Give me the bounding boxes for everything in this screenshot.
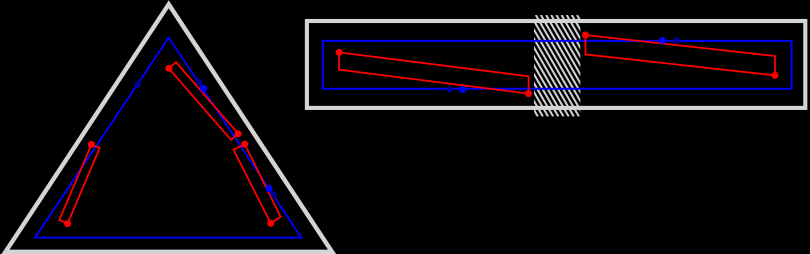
navy points (bar) xyxy=(447,86,454,93)
navy points (triangle) xyxy=(134,82,141,89)
bar container (gray) xyxy=(307,21,805,108)
triangle container (gray) xyxy=(6,4,333,252)
red rod 2 (lower right) xyxy=(234,144,281,223)
red rod left (bar) xyxy=(339,52,528,93)
red points (triangle) xyxy=(165,65,172,72)
blue points (triangle) xyxy=(200,85,207,92)
hatched band xyxy=(474,15,636,117)
triangle inner (blue) xyxy=(35,38,301,238)
blue points (bar) xyxy=(459,86,466,93)
red rod 3 (left) xyxy=(59,145,99,224)
red points (bar) xyxy=(336,49,343,56)
red rod right (bar) xyxy=(586,35,776,75)
red rod 1 (upper right) xyxy=(169,62,238,140)
bar inner (blue) xyxy=(323,41,792,89)
